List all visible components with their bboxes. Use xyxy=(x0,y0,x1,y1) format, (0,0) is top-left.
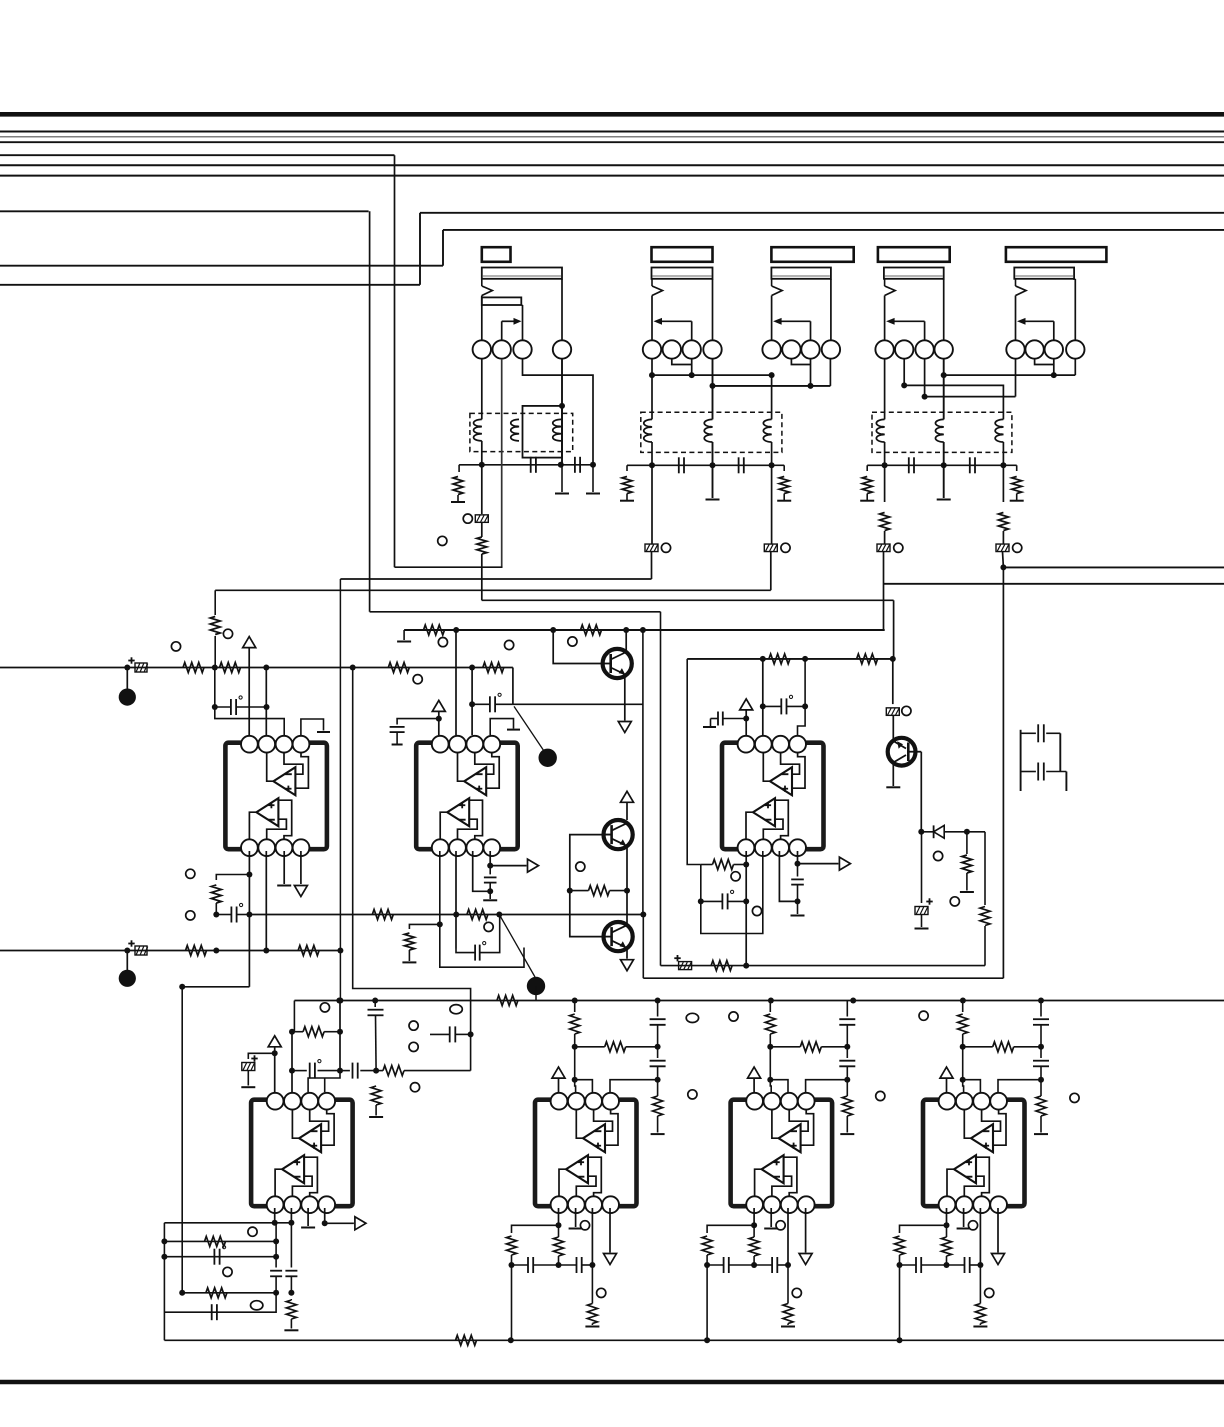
pairB cap line y=465 xyxy=(867,464,1003,466)
line y=914.5 (IC1 to transistor column) xyxy=(251,914,643,916)
wire IC4 pin4 feed xyxy=(308,1071,340,1092)
resistor line915 Rb xyxy=(467,910,488,920)
capacitor IC1 fb xyxy=(230,907,232,923)
tuner TU4 wire switch to pin1 xyxy=(884,296,886,341)
via IC2 bottom xyxy=(484,922,493,931)
wire IC3 pin4 feed xyxy=(798,659,806,735)
wire Q4 collector to diode xyxy=(920,752,922,832)
wire pin2 riser IC1 xyxy=(265,668,267,736)
U6 bottom pin1 chain xyxy=(753,1208,755,1225)
wire cap to x=643 xyxy=(513,703,643,705)
U6 resistor chain riser xyxy=(769,1001,771,1013)
resistor IC4 to ground xyxy=(371,1086,381,1105)
tuner TU5 switch xyxy=(1015,279,1017,286)
via between U5 U6 xyxy=(729,1012,738,1021)
U6 cap low b xyxy=(771,1257,773,1273)
via near railC c xyxy=(568,637,577,646)
resistor input1 Rd xyxy=(483,663,504,673)
wire IC2 pin2 riser xyxy=(455,630,457,735)
wire TU3 pin2 jog xyxy=(791,359,810,365)
wire TU2 pin4 down xyxy=(712,359,714,420)
U5 via b xyxy=(597,1288,606,1297)
TU1 dashed coil box xyxy=(470,413,573,451)
IC2 pin1 hook resistor xyxy=(409,924,439,929)
bus wire 5 xyxy=(0,164,1224,166)
wire TU4 pin2 down xyxy=(903,359,905,386)
wire Q3 collector xyxy=(626,891,628,926)
electrolytic input2 xyxy=(128,943,134,945)
wire pin1-chain jog y=987 xyxy=(181,986,249,988)
U5 oval c xyxy=(686,1013,698,1022)
wire net TU4-TU5 y=397 xyxy=(925,396,1016,398)
tuner TU2 pin1-pin2 link xyxy=(661,349,663,351)
wire IC1 bottom pin1 loop xyxy=(248,851,250,951)
tuner TU4 tune arrow (points left) xyxy=(924,321,926,340)
ground pairB center xyxy=(943,465,945,498)
tuner TU5 bar xyxy=(1014,268,1074,279)
wire Q1 emitter + ground arrow xyxy=(624,675,626,721)
tuner TU4 switch xyxy=(884,279,886,286)
U7 bottom pin1 chain xyxy=(946,1208,948,1225)
U6 pin3 feed xyxy=(770,1080,788,1092)
via mid between U6 U7 xyxy=(876,1091,885,1100)
bus wire 3 xyxy=(0,141,1224,143)
wire IC3 fb loop xyxy=(701,851,763,934)
resistor rail B xyxy=(456,1335,477,1345)
transistor Q1 xyxy=(603,649,632,678)
via box a xyxy=(248,1227,257,1236)
tuner TU3 wire bar to pin4 xyxy=(830,278,831,280)
capacitor TU1 Cb xyxy=(574,457,576,473)
op-amp IC U6 xyxy=(731,1100,833,1207)
wire Q4 emitter ground xyxy=(892,763,894,787)
transistor Q4 xyxy=(888,738,916,766)
wire net TU4-TU5 y=385 xyxy=(904,385,1003,419)
U7 pin4 ground arrow xyxy=(997,1208,999,1253)
wire IC4 pin1 bottom xyxy=(274,1208,276,1223)
wire vertical x=394 from bus4 xyxy=(394,155,396,567)
tuner TU2 wire bar to pin4 xyxy=(712,278,713,280)
capacitor box C2 xyxy=(211,1304,213,1320)
wire TU1 pin4 down xyxy=(561,359,563,465)
bus wire 2 (thin) xyxy=(0,136,1224,138)
bus wire 10 (to x=420) xyxy=(0,284,420,286)
tuner TU3 pin1-pin2 link xyxy=(781,349,783,351)
U6 pin3 drop xyxy=(787,1208,789,1265)
U7 cap low a xyxy=(915,1257,917,1273)
capacitor pairA Cb xyxy=(738,457,740,473)
wire L2 y=590.3 xyxy=(215,589,771,591)
op-amp IC U7 xyxy=(923,1100,1025,1207)
wire IC4 pin2 riser xyxy=(291,1032,293,1092)
U5 pin4 feed xyxy=(610,1080,658,1092)
via input1 b xyxy=(223,629,232,638)
wire TU3 pin4 down xyxy=(829,359,831,386)
resistor rail A xyxy=(497,996,518,1006)
tuner TU5 connector pins xyxy=(1006,340,1024,358)
wire input1 end drop xyxy=(512,668,514,705)
resistor box R1 xyxy=(205,1236,226,1246)
U5 pin3 drop xyxy=(591,1208,593,1265)
op-amp IC U3 xyxy=(722,743,824,850)
inductor TU4 La xyxy=(876,419,884,442)
wire IC2 pin2-bottom xyxy=(455,851,457,949)
wire Q3 emitter + ground arrow xyxy=(626,948,628,959)
U7 resistor out + ground xyxy=(975,1304,985,1324)
wire vertical x=369.6 from bus7 xyxy=(369,211,371,612)
U-link wire y=567 block1 xyxy=(395,566,503,568)
via box b xyxy=(223,1267,232,1276)
U6 resistor left xyxy=(702,1236,712,1255)
U7 pin4 feed xyxy=(998,1080,1041,1092)
IC2 output arrow xyxy=(489,851,491,866)
tuner TU1 wire bar2 to pin3 xyxy=(521,304,522,306)
capacitor IC2 top xyxy=(489,696,491,712)
capacitor IC1 top xyxy=(230,699,232,715)
TU4/TU5 dashed coil box xyxy=(872,412,1012,452)
U7 via a xyxy=(968,1221,977,1230)
bus wire 1 xyxy=(0,131,1224,133)
U5 resistor horizontal xyxy=(605,1042,626,1052)
wire x=660.5 vertical xyxy=(660,612,662,966)
tuner TU3 connector pins xyxy=(762,340,780,358)
wire x=642.9 vertical xyxy=(642,630,644,915)
U7 left drop to rail B xyxy=(899,1265,901,1340)
U6 pin4 ground arrow xyxy=(805,1208,807,1253)
U7 resistor chain riser xyxy=(962,1001,964,1013)
wire TU3 pin1 down xyxy=(771,375,773,419)
tuner TU4 label box xyxy=(878,247,950,262)
via near railC b xyxy=(505,640,514,649)
tuner TU3 switch xyxy=(771,279,773,286)
capacitor mid xyxy=(449,1026,451,1042)
wire IC3 left loop xyxy=(687,659,701,865)
tuner TU1 connector pins xyxy=(473,340,491,358)
resistor IC4 top xyxy=(303,1027,324,1037)
bus wire 7 right segment (from x=420) xyxy=(420,212,1224,214)
inductor TU1 L3 xyxy=(553,419,561,441)
net line y=1256.7 xyxy=(164,1256,276,1258)
U6 left drop to rail B xyxy=(706,1265,708,1340)
input line 1 y=667.5 xyxy=(0,667,513,669)
U5 cap chain xyxy=(657,1001,659,1017)
U6 via a xyxy=(776,1221,785,1230)
wire TU2 pin3 down xyxy=(691,359,693,375)
resistor rail C R1 xyxy=(424,625,445,635)
wire jog bus8-left xyxy=(442,230,444,266)
capacitor IC2 fb xyxy=(474,945,476,961)
wire TU1 pin2 gray down to U-link xyxy=(501,359,503,567)
resistor line915 Ra xyxy=(372,910,393,920)
wire L4 y=567.4 xyxy=(1003,566,1224,568)
U7 pin2 feed xyxy=(962,1080,965,1092)
ground arrow IC1 pin4 xyxy=(300,851,302,884)
tuner TU1 pin1-pin2 link xyxy=(491,349,493,351)
wire vertical x=215.2 + resistor to input line 1 xyxy=(214,590,216,615)
IC4 cap row xyxy=(292,1070,307,1072)
tuner TU5 wire bar to pin4 xyxy=(1073,278,1075,280)
inductor TU2 Lb xyxy=(704,419,712,442)
wire TU5 pin3 down xyxy=(1053,359,1055,375)
pointer line to BD3 xyxy=(514,706,546,754)
U7 via b xyxy=(985,1288,994,1297)
bottom border rule xyxy=(0,1380,1224,1385)
wire TU1 pin3 jog to x=593 xyxy=(523,359,594,465)
wire TU4 pin4 down xyxy=(943,359,945,420)
inductor TU2 La xyxy=(644,419,652,442)
U6 pin2 feed xyxy=(769,1080,772,1092)
U7 pin3 feed xyxy=(963,1080,981,1092)
top border rule xyxy=(0,112,1224,117)
tuner TU1 label box xyxy=(482,247,511,262)
resistor pairA left + ground xyxy=(626,465,628,471)
wire TU5 drop: resistor + ferrite xyxy=(1002,465,1004,502)
capacitor IC4 Cb xyxy=(352,1063,354,1079)
wire L1 y=579 xyxy=(340,578,651,580)
wire TU5 pin1 down xyxy=(1015,359,1017,397)
resistor IC4 row xyxy=(383,1066,404,1076)
capacitor pairB Ca xyxy=(908,457,910,473)
inductor TU1 L1 xyxy=(481,359,483,420)
wire diode branch resistor xyxy=(966,832,968,854)
tuner TU4 connector pins xyxy=(875,340,893,358)
U5 resistor mid xyxy=(554,1237,564,1256)
resistor Q2-Q3 xyxy=(589,886,610,896)
transistor Q3 xyxy=(604,922,633,951)
wire IC2 left loop x=354.8 xyxy=(353,668,471,1071)
wire IC3 pin2 riser xyxy=(762,659,764,735)
U6 cap chain xyxy=(846,1001,848,1017)
op-amp IC U1 xyxy=(225,743,327,850)
bus wire 7 left segment (ends x=368.6) xyxy=(0,210,369,212)
U6 resistor horizontal xyxy=(800,1042,821,1052)
U5 left drop to rail B xyxy=(511,1265,513,1340)
ground TU1 under pin4 xyxy=(561,465,563,492)
pointer line to BD4 xyxy=(499,915,535,978)
U6 ground pin2 xyxy=(770,1208,772,1227)
U5 resistor to ground xyxy=(653,1096,663,1116)
U7 resistor mid xyxy=(942,1237,952,1256)
wire TU2 pin2 jog xyxy=(672,359,692,365)
U7 cap chain xyxy=(1040,1001,1042,1017)
tuner TU2 switch xyxy=(651,279,653,286)
ground pairA center xyxy=(712,465,714,498)
oval right of IC4 xyxy=(450,1005,462,1014)
via mid a xyxy=(409,1021,418,1030)
wire net TU4-TU5 y=375 xyxy=(944,374,1076,376)
tuner TU3 wire switch to pin1 xyxy=(771,296,773,341)
wire IC2 pin1 loop xyxy=(440,851,524,967)
tuner TU3 label box xyxy=(771,247,853,262)
wire TU2 pin1 down xyxy=(651,359,653,420)
twin caps IC4 xyxy=(275,1223,277,1268)
tuner TU5 label box xyxy=(1006,247,1107,262)
capacitor pairB Cb xyxy=(969,457,971,473)
wire TU5 pin2 jog xyxy=(1035,359,1054,365)
resistor pairB left + ground xyxy=(866,465,868,471)
resistor IC4 low + ground xyxy=(286,1300,296,1319)
wire to Q4 xyxy=(892,715,894,741)
tuner TU1 switch xyxy=(481,279,483,286)
wire vertical x=340.4 (L1 to input2) xyxy=(339,579,341,1001)
left box IC4 feedback net xyxy=(181,987,183,1293)
tuner TU1 bar xyxy=(482,268,562,279)
wire IC2 pin3 riser xyxy=(471,668,473,736)
electrolytic input1 xyxy=(128,660,134,662)
via IC1 fb a xyxy=(186,869,195,878)
wire TU5 vertical long xyxy=(1002,567,1004,978)
wire IC3 pin3 to cap xyxy=(779,851,797,901)
tuner TU4 bar xyxy=(884,268,944,279)
tuner TU1 wire bar to pin4 xyxy=(561,278,562,280)
U5 resistor chain riser xyxy=(574,1001,576,1013)
resistor series 965 xyxy=(711,961,732,971)
black connector dot BD4 xyxy=(527,977,545,995)
resistor box R2 xyxy=(206,1288,227,1298)
U6 resistor out + ground xyxy=(783,1304,793,1324)
wire IC3 bottom pin1 xyxy=(745,851,747,966)
IC3 power arrow xyxy=(740,699,753,710)
tuner TU3 bar xyxy=(771,268,831,279)
U5 resistor left xyxy=(507,1236,517,1255)
tuner TU5 wire switch to pin1 xyxy=(1015,296,1017,341)
Q2 power arrow xyxy=(621,791,634,802)
via right of U7 xyxy=(1070,1093,1079,1102)
resistor TU1 Rb xyxy=(477,537,487,554)
bus wire 9 (to x=443) xyxy=(0,265,443,267)
op-amp IC U4 xyxy=(251,1100,353,1207)
IC1 power arrow xyxy=(243,637,256,648)
wire TU3 pin3 down xyxy=(810,359,812,386)
wire TU4 pin3 down xyxy=(924,359,926,397)
U5 ground pin2 xyxy=(575,1208,577,1227)
IC2 pin4 ground hook xyxy=(490,719,513,735)
wire Q2 base xyxy=(570,835,611,891)
tuner TU2 wire switch to pin1 xyxy=(651,296,653,341)
resistor input1 Rb xyxy=(220,663,241,673)
via mid b xyxy=(409,1042,418,1051)
TU2/TU3 dashed coil box xyxy=(641,412,782,452)
tuner TU5 pin1-pin2 link xyxy=(1025,349,1026,351)
IC4 output arrow xyxy=(324,1208,326,1223)
via Q2 xyxy=(576,862,585,871)
U5 pin2 feed xyxy=(574,1080,577,1092)
tuner TU4 wire bar to pin4 xyxy=(943,278,944,280)
capacitor IC2 out xyxy=(489,866,491,875)
U5 pin4 ground arrow xyxy=(609,1208,611,1253)
U5 resistor out + ground xyxy=(587,1304,597,1324)
resistor IC3 fb xyxy=(713,860,734,870)
wire lineA y=600.3 xyxy=(482,599,894,601)
resistor rail C R2 xyxy=(581,625,602,635)
U7 resistor horizontal xyxy=(993,1042,1014,1052)
net line y=1312.2 xyxy=(164,1293,276,1312)
U6 resistor mid xyxy=(749,1237,759,1256)
capacitor TU1 Ca xyxy=(530,457,532,473)
bus wire 8 (from x=443) xyxy=(443,229,1224,231)
inductor TU4 Lb xyxy=(935,419,943,442)
wire TU2 drop + ferrite xyxy=(651,465,653,544)
capacitor pairA Ca xyxy=(678,457,680,473)
capacitor IC3 fb xyxy=(721,893,723,909)
pairA cap line y=465 xyxy=(627,464,772,466)
U6 cap low a xyxy=(723,1257,725,1273)
electrolytic IC4 left xyxy=(248,1053,274,1059)
black connector dot BD1 xyxy=(126,668,128,690)
inductor TU3 La xyxy=(763,419,771,442)
rail A y=1000.5 xyxy=(293,1001,295,1032)
resistor railD R2 xyxy=(857,654,878,664)
wire L3 y=583.8 xyxy=(884,583,1224,585)
U6 resistor to ground xyxy=(842,1096,852,1116)
ground IC1 pin3 xyxy=(283,851,285,884)
op-amp IC U5 xyxy=(535,1100,637,1207)
wire IC1 bottom pin2 drop xyxy=(265,851,267,951)
wire TU5 pin4 down xyxy=(1074,359,1076,375)
capacitor IC3 out xyxy=(797,864,799,877)
wire y=978.2 horizontal (outer) xyxy=(643,977,1003,979)
op-amp IC U2 xyxy=(416,743,518,850)
U7 resistor to ground xyxy=(1036,1096,1046,1116)
wire net TU2-TU3 y=386 xyxy=(713,385,831,387)
electrolytic Q4 branch xyxy=(921,832,923,903)
resistor input2 Rb xyxy=(298,946,319,956)
tuner TU3 tune arrow (points left) xyxy=(810,321,812,340)
wire TU4 drop: resistor + ferrite xyxy=(884,465,886,502)
IC3 output arrow xyxy=(797,851,799,864)
resistor input1 Ra xyxy=(183,663,204,673)
capacitor IC3 top xyxy=(780,698,782,714)
via top right of U6 xyxy=(919,1011,928,1020)
via mid c xyxy=(410,1083,419,1092)
U5 via d xyxy=(688,1090,697,1099)
wire ferrite right column xyxy=(892,659,894,704)
wire jog bus7-left xyxy=(419,213,421,285)
via block1 box xyxy=(438,536,447,545)
wire IC2 pin3 to cap xyxy=(473,851,491,891)
capacitor IC2 left xyxy=(397,719,439,725)
via right of IC4 xyxy=(320,1003,329,1012)
tuner TU4 pin1-pin2 link xyxy=(894,349,896,351)
U7 ground pin2 xyxy=(963,1208,965,1227)
bottom rail B y=1340.3 xyxy=(163,1223,165,1341)
U5 cap low b xyxy=(576,1257,578,1273)
wire lineB y=611.8 xyxy=(370,611,661,613)
net line y=1241.4 xyxy=(164,1240,276,1242)
ground IC4 pin3 xyxy=(307,1208,309,1226)
tuner TU2 bar xyxy=(652,268,713,279)
via IC1 fb b xyxy=(186,911,195,920)
rail D y=658.9 (above IC3) xyxy=(687,658,893,660)
tuner TU5 tune arrow (points left) xyxy=(1053,321,1055,340)
inductor TU1 L2 xyxy=(511,419,519,441)
resistor pairB right + ground xyxy=(1003,464,1016,466)
wire y=965.6 horizontal (inner) xyxy=(661,965,986,967)
U7 power arrow xyxy=(940,1067,953,1078)
capacitor IC3 left xyxy=(723,718,746,720)
wire IC1 pin3 feed xyxy=(215,707,284,735)
IC4 power arrow xyxy=(268,1036,281,1047)
capacitor IC4 riser xyxy=(374,1001,376,1008)
wire net TU2-TU3 y=375 xyxy=(652,374,772,376)
bus wire 4 (ends x=394) xyxy=(0,154,395,156)
TU1 cap line y=465 xyxy=(459,464,593,466)
tuner TU1 wire switch to pin1 xyxy=(481,296,483,341)
ground TU1 x=593 xyxy=(592,465,594,492)
via near railC a xyxy=(438,638,447,647)
U6 via b xyxy=(792,1288,801,1297)
via IC3 fb xyxy=(731,872,740,881)
